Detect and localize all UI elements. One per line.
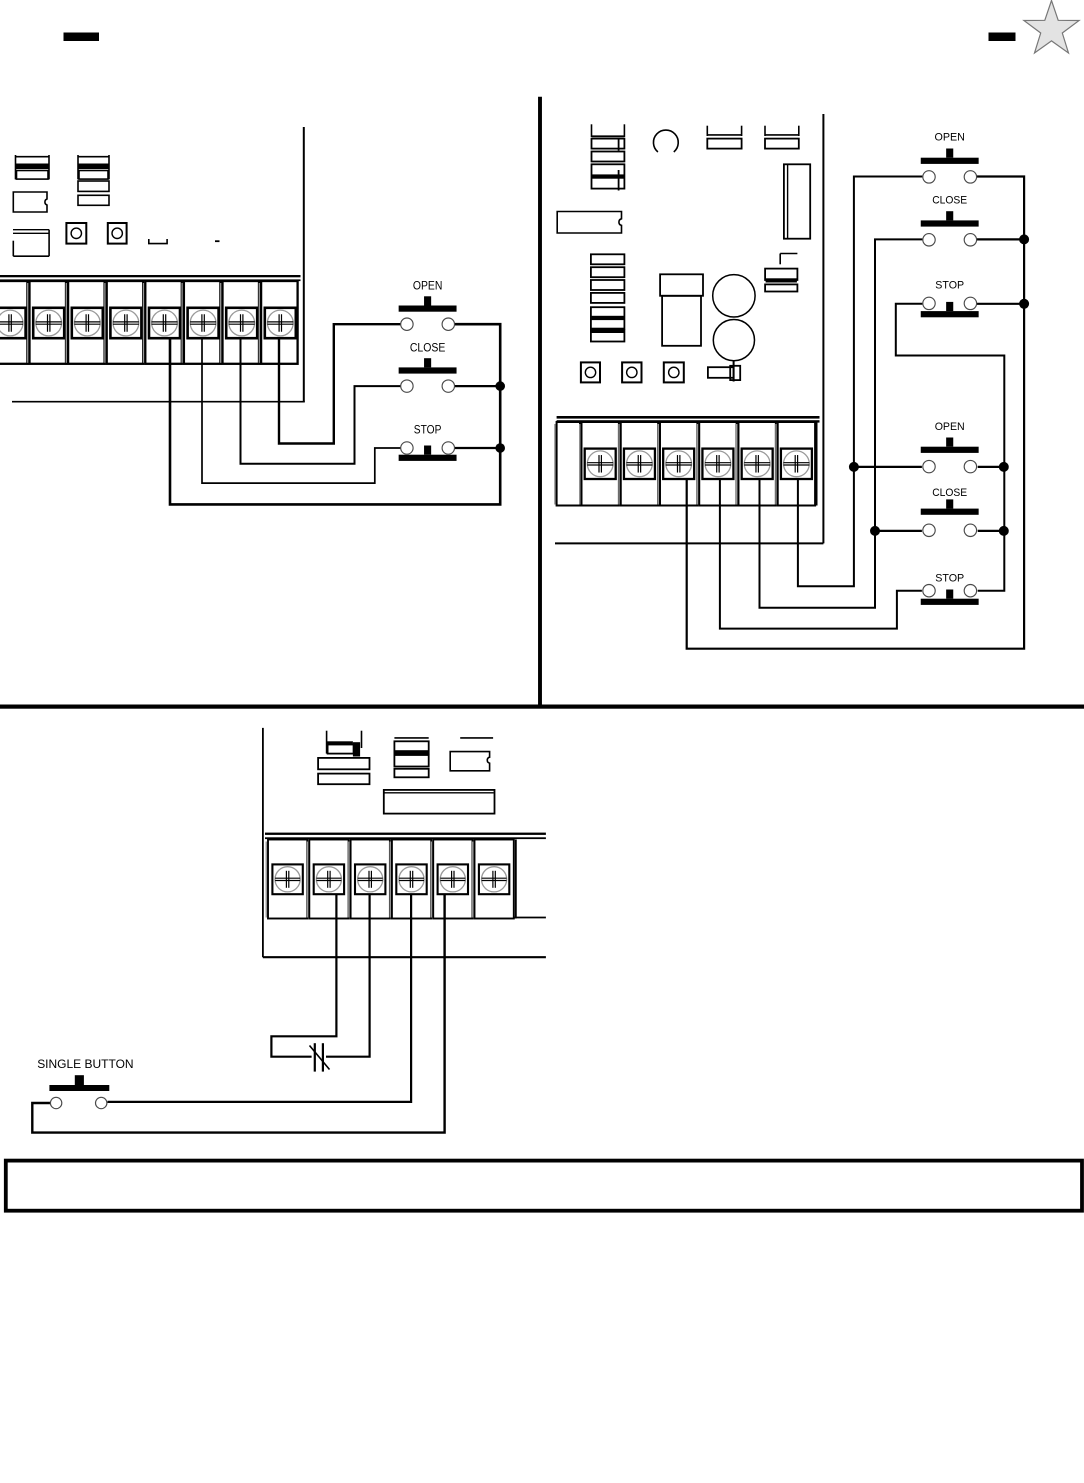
transformer T1 (right board) <box>660 274 703 296</box>
wire: STOP1 right contact stub to common bus <box>977 303 1024 305</box>
capacitor footprint C1 (left board) <box>16 156 50 158</box>
terminal screw TB3-5 <box>438 864 468 894</box>
resistor array RN1 (right board) <box>591 254 625 264</box>
svg-text:CLOSE: CLOSE <box>410 340 446 354</box>
left control board bottom edge <box>12 401 305 403</box>
IC U1 (left board, DIP with notch) <box>13 192 47 212</box>
connector J2 (bottom board, long rectangle) <box>384 790 495 814</box>
wire: CLOSE1 right contact stub to common bus <box>977 238 1024 240</box>
terminal screw TB2-5 <box>742 449 773 479</box>
resistor R1 (left board) <box>78 181 109 191</box>
wire: OPEN2 left contact stub <box>854 466 922 468</box>
junction: OPEN chain at OPEN2 left <box>849 462 859 472</box>
capacitor footprint C4 (right board) <box>706 126 708 136</box>
wire: common bus from left OPEN right contact to terminal TB1-5 <box>170 324 500 504</box>
terminal block TB3-4 (bottom board) <box>389 842 391 918</box>
resistor stack RN2 (bottom board) <box>394 737 428 739</box>
terminal screw TB1-6 <box>188 308 219 338</box>
svg-text:CLOSE: CLOSE <box>932 195 967 207</box>
relay K1 (right board, tall rectangle) <box>784 164 810 238</box>
terminal block TB3-2 (bottom board) <box>307 842 309 918</box>
svg-text:OPEN: OPEN <box>935 421 965 433</box>
right terminal strip rail <box>557 416 820 419</box>
IC U3 (bottom board, DIP with notch) <box>450 752 489 771</box>
junction: CLOSE chain at CLOSE2 left <box>870 526 880 536</box>
terminal block TB3-3 (bottom board) <box>348 842 350 918</box>
svg-text:STOP: STOP <box>935 573 964 585</box>
bottom control board bottom edge <box>263 956 546 958</box>
right control board bottom edge <box>555 542 823 544</box>
capacitor footprint C8 (bottom board) <box>326 731 328 754</box>
wire: common bus OPEN1 right to terminal TB2-3 <box>687 177 1024 649</box>
wire: STOP2 left contact to terminal TB2-4 <box>720 479 922 629</box>
svg-text:STOP: STOP <box>414 423 442 437</box>
terminal block TB2-4 (right board) <box>697 424 699 505</box>
terminal screw TB2-6 <box>781 449 812 479</box>
wire: OPEN2 right contact stub <box>978 466 1004 468</box>
jumper W2 (bottom board) <box>460 737 493 739</box>
wire: STOP1 left contact series link to STOP2 right contact <box>896 304 1005 591</box>
wire: OPEN1 left contact chain to terminal TB2-6 <box>798 177 923 587</box>
wire: terminal TB3-5 to SINGLE BUTTON left contact <box>32 894 444 1133</box>
terminal block TB2-2 (right board) <box>618 424 620 505</box>
capacitor footprint C5 (right board) <box>764 126 766 136</box>
bottom control board left edge <box>262 728 264 957</box>
terminal block TB1-4 (left board) <box>104 283 106 363</box>
terminal block TB1-7 (left board) <box>220 283 222 363</box>
resistor R3 (bottom board) <box>318 758 369 769</box>
terminal block TB2-5 (right board) <box>736 424 738 505</box>
junction: STOP1 to common bus <box>1019 299 1029 309</box>
section divider (horizontal rule) <box>0 705 1084 709</box>
terminal screw TB3-2 <box>314 864 344 894</box>
wire: terminal TB3-2 to radio capacitor <box>271 894 336 1057</box>
terminal block TB3-6 (bottom board) <box>472 842 474 918</box>
terminal screw TB3-1 <box>272 864 302 894</box>
wire: terminal TB3-4 to SINGLE BUTTON right contact <box>108 894 412 1102</box>
capacitor C6 (right board, round) <box>713 275 755 317</box>
terminal screw TB1-4 <box>110 308 141 338</box>
svg-text:OPEN: OPEN <box>413 279 443 293</box>
registration mark (top-right black dash) <box>989 33 1016 42</box>
left control board right edge <box>303 127 305 402</box>
push-button S1 (left board) <box>66 223 86 244</box>
terminal block TB2-6 (right board) <box>775 424 777 505</box>
terminal block TB1-6 (left board) <box>181 283 183 363</box>
wire: left STOP right contact stub to common bus <box>454 447 500 449</box>
capacitor footprint C2 (left board) <box>78 156 109 158</box>
terminal block TB3-7 (partial, bottom board) <box>515 840 517 919</box>
svg-text:SINGLE BUTTON: SINGLE BUTTON <box>37 1057 133 1071</box>
diode D1 footprint (right board) <box>780 253 797 255</box>
crystal Y1 (right board, arc) <box>653 130 678 152</box>
star icon (model rating) <box>1024 1 1079 54</box>
right control board right edge <box>822 114 824 543</box>
svg-text:OPEN: OPEN <box>935 132 965 144</box>
wire: left STOP button left contact to terminal TB1-6 <box>202 337 401 483</box>
terminal block TB2-1 (right board) <box>579 424 581 505</box>
IC U2 (right board, DIP with notch) <box>557 212 621 234</box>
terminal screw TB3-3 <box>355 864 385 894</box>
resistor R2 (left board) <box>78 195 109 205</box>
connector J1 outline (left board) <box>13 229 49 231</box>
terminal screw TB3-6 <box>479 864 509 894</box>
terminal screw TB2-3 <box>663 449 694 479</box>
push-button S2 (left board) <box>108 223 127 244</box>
capacitor C9 (radio suppression, plates and polarity slash) <box>314 1043 316 1071</box>
resistor R4 (bottom board) <box>318 774 369 785</box>
terminal screw TB2-2 <box>624 449 655 479</box>
push-button S3 (right board) <box>581 362 600 382</box>
junction: left CLOSE to common bus <box>495 381 505 391</box>
terminal screw TB1-2 <box>33 308 64 338</box>
wire: left CLOSE button left contact to terminal TB1-7 <box>241 337 401 464</box>
push-button S5 (right board) <box>664 362 684 382</box>
left terminal strip rail <box>0 275 301 277</box>
junction: series link at OPEN2 right <box>999 462 1009 472</box>
registration mark (top-left black dash) <box>64 33 100 42</box>
junction: series link at CLOSE2 right <box>999 526 1009 536</box>
terminal screw TB1-1 <box>0 308 26 338</box>
wire: CLOSE2 left contact stub <box>875 530 922 532</box>
fuse F1 (right board) <box>708 367 734 378</box>
terminal block TB1-5 (left board) <box>143 283 145 363</box>
capacitor C7 (right board, round) <box>713 320 754 361</box>
notice box (empty frame) <box>6 1161 1082 1211</box>
capacitor footprint C3 (right board) <box>591 124 593 137</box>
junction: left STOP to common bus <box>495 443 505 453</box>
terminal screw TB3-4 <box>396 864 426 894</box>
svg-text:STOP: STOP <box>935 280 964 292</box>
jumper W1 (left board) <box>149 239 167 244</box>
wire: radio capacitor to terminal TB3-3 <box>326 894 370 1057</box>
terminal block TB3-1 (bottom board) <box>265 842 267 918</box>
terminal block TB1-8 (left board) <box>259 283 261 363</box>
wire: CLOSE2 right contact stub <box>978 530 1004 532</box>
bottom terminal strip rail <box>265 833 546 835</box>
right terminal strip right end <box>816 421 818 506</box>
terminal screw TB1-8 <box>265 308 296 338</box>
test point TP1 (left board) <box>215 240 220 242</box>
terminal block TB2-0 (partial, right board) <box>554 424 556 505</box>
push-button S4 (right board) <box>622 362 641 382</box>
terminal screw TB2-4 <box>702 449 733 479</box>
terminal screw TB1-5 <box>149 308 180 338</box>
svg-text:CLOSE: CLOSE <box>932 487 967 499</box>
terminal screw TB1-7 <box>226 308 257 338</box>
wire: left CLOSE right contact stub to common bus <box>454 385 500 387</box>
junction: CLOSE1 to common bus <box>1019 234 1029 244</box>
terminal block TB2-3 (right board) <box>657 424 659 505</box>
wire: left OPEN button left contact to terminal TB1-8 <box>279 324 401 443</box>
terminal block TB1-3 (left board) <box>66 283 68 363</box>
section divider (vertical center rule) <box>538 97 542 709</box>
terminal screw TB1-3 <box>72 308 103 338</box>
terminal block TB1-2 (left board) <box>27 283 29 363</box>
wire: CLOSE1 left contact chain to terminal TB2-5 <box>760 239 923 607</box>
terminal block TB3-5 (bottom board) <box>431 842 433 918</box>
terminal screw TB2-1 <box>585 449 616 479</box>
